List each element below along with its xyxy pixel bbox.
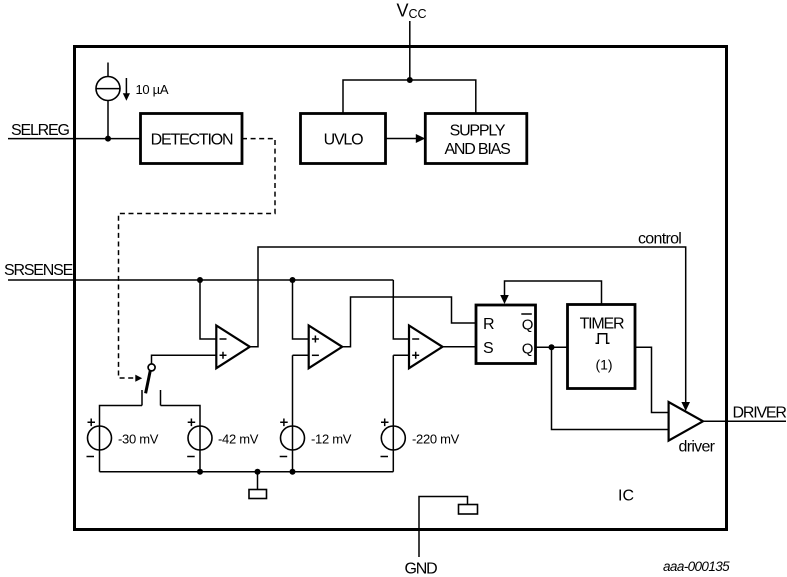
buffer driver	[669, 402, 703, 441]
svg-text:TIMER: TIMER	[580, 315, 624, 332]
svg-text:-220 mV: -220 mV	[412, 432, 460, 447]
wire SELREG	[8, 138, 141, 140]
node rail junction -42	[197, 469, 203, 475]
svg-text:UVLO: UVLO	[324, 132, 364, 149]
dashed wire DETECTION to switch	[119, 139, 276, 378]
IC boundary	[75, 47, 727, 530]
node rail junction -12	[290, 469, 296, 475]
svg-text:GND: GND	[405, 561, 438, 577]
svg-text:Q: Q	[522, 317, 534, 334]
svg-text:Q: Q	[522, 341, 534, 358]
wire comp3 minus input from SRSENSE	[393, 280, 409, 339]
wire comp3 plus input from -220 mV	[393, 355, 409, 472]
arrow current direction	[125, 78, 127, 94]
svg-text:DRIVER: DRIVER	[733, 405, 787, 422]
node Q junction	[549, 344, 555, 350]
wire comp2 plus input	[293, 280, 309, 339]
wire comp3 output to S input	[443, 346, 477, 348]
svg-text:SRSENSE: SRSENSE	[4, 262, 73, 279]
wire SRSENSE	[8, 279, 393, 281]
svg-text:SUPPLY: SUPPLY	[450, 123, 506, 140]
source -12 mV	[281, 426, 305, 450]
pin GND wire	[419, 497, 468, 558]
block TIMER	[568, 305, 636, 389]
wire comp1 plus input from switch	[152, 355, 217, 365]
wire right throw to -42 mV source	[161, 406, 201, 472]
wire feedback TIMER to R latch top with arrow	[505, 281, 602, 305]
op-amp comparator 3	[409, 326, 443, 369]
node SRSENSE junction A	[197, 277, 203, 283]
svg-text:-12 mV: -12 mV	[311, 432, 352, 447]
svg-text:S: S	[483, 340, 493, 357]
wire comp1 inverting input	[200, 280, 216, 339]
wire VCC down to junction	[409, 21, 411, 80]
one-shot pulse symbol	[596, 334, 610, 344]
ground symbol 2	[459, 505, 478, 515]
svg-text:driver: driver	[679, 439, 716, 456]
block DETECTION	[141, 114, 243, 164]
switch blade	[146, 371, 151, 393]
wire Q to driver	[552, 347, 669, 429]
wire UVLO to SUPPLY AND BIAS with arrow	[386, 138, 417, 140]
block UVLO	[301, 114, 386, 164]
wire comp2 output to R input	[342, 297, 476, 347]
wire control from comp1 output	[250, 247, 686, 403]
source -220 mV	[381, 426, 405, 450]
svg-text:IC: IC	[618, 488, 634, 505]
block SUPPLY AND BIAS	[425, 114, 527, 164]
switch S1 common contact	[148, 364, 155, 371]
node rail junction gnd	[255, 469, 261, 475]
wire VCC rail to UVLO and SUPPLY	[343, 80, 476, 114]
svg-text:-42 mV: -42 mV	[218, 432, 259, 447]
wire Q output to TIMER	[536, 346, 568, 348]
wire comp2 minus input from -12 mV	[293, 355, 309, 472]
op-amp comparator 1	[216, 326, 250, 369]
svg-text:-30 mV: -30 mV	[118, 432, 159, 447]
wire TIMER output to driver	[635, 347, 669, 412]
wire left throw to -30 mV source	[100, 406, 143, 472]
svg-text:DETECTION: DETECTION	[151, 132, 233, 149]
svg-text:R: R	[483, 316, 494, 333]
source -42 mV	[188, 426, 212, 450]
svg-text:AND BIAS: AND BIAS	[444, 141, 510, 158]
svg-text:control: control	[638, 231, 681, 248]
svg-text:aaa-000135: aaa-000135	[663, 559, 730, 574]
source -30 mV	[88, 426, 112, 450]
block RS latch	[476, 305, 536, 364]
bottom rail wire	[100, 471, 394, 473]
switch throw contacts	[142, 390, 161, 406]
svg-text:10 µA: 10 µA	[136, 82, 169, 97]
node SELREG junction	[105, 136, 111, 142]
op-amp comparator 2	[309, 326, 343, 369]
node VCC junction	[407, 77, 413, 83]
pin DRIVER output wire	[703, 420, 786, 422]
node SRSENSE junction B	[290, 277, 296, 283]
svg-text:(1): (1)	[595, 356, 612, 372]
current source I1 10 uA	[107, 63, 109, 77]
svg-text:SELREG: SELREG	[11, 122, 69, 139]
ground symbol 1	[257, 472, 259, 490]
